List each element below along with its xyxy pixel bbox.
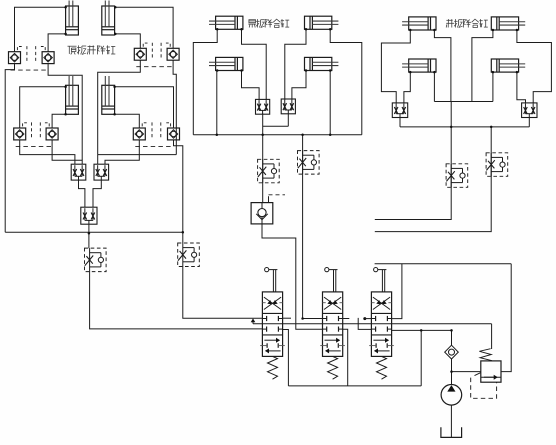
wire cyl4-bottom to lock2R-A — [115, 114, 140, 128]
pilot lines lock2R — [135, 122, 173, 146]
shuttle N2 — [522, 103, 537, 118]
wire cyl2-top to lock1R-B — [115, 7, 173, 48]
wire cyl2R-left to center join — [472, 30, 493, 102]
one-way throttle F1R — [446, 164, 468, 188]
cylinder: floor-fold 4 (row2-right) — [491, 59, 525, 72]
wire cyl3R-left to N1 — [404, 72, 410, 104]
wire cyl1-bottom to lock1L-B — [48, 34, 66, 52]
wire V1 right-bottom to bottom bus — [283, 330, 289, 386]
cylinder: wing-fold 3 (row2-left) — [209, 57, 243, 70]
label: floor fold cylinders (di ban zhan he gang) — [446, 19, 488, 27]
directional valve V1 (roof) lever — [265, 268, 278, 292]
pilot check valve: lock2R-B — [168, 128, 180, 140]
wire lock2R-A to B-in-right — [105, 140, 139, 164]
wire cyl1R-left to border to N1 — [381, 30, 410, 104]
wire left group bottom bus — [5, 231, 183, 233]
one-way throttle F2M — [298, 151, 320, 175]
cylinder: roof-lift 2 (top-right) — [102, 1, 115, 36]
pump suction line — [450, 405, 452, 437]
wire V3 left bracket — [358, 318, 371, 330]
pilot check valve: lock2L-A — [14, 128, 26, 140]
wire cyl3-top to lock2L-A — [20, 87, 66, 128]
wire cyl4M-left to M2 — [292, 71, 306, 101]
wire bottom pressure bus — [288, 385, 421, 387]
wire cyl2-bottom to lock1R-A — [115, 34, 140, 48]
wire lock1L-B out down — [48, 64, 82, 161]
shuttle/flow-combiner C — [81, 207, 97, 224]
wire center join bar — [434, 101, 493, 103]
one-way throttle F2R — [486, 153, 508, 177]
wire cyl3M-left down to bus — [216, 71, 218, 135]
wire cyl4-top to lock2R-B — [115, 87, 174, 128]
shuttle N1 — [392, 103, 407, 118]
directional valve V1 (roof) return spring — [268, 356, 278, 379]
wire branch down to bottom bus — [420, 330, 422, 386]
check valve above pump — [445, 345, 459, 359]
pilot check valve: lock1L-A — [9, 52, 21, 64]
relief valve pilot dashed line — [471, 378, 497, 399]
shuttle M1 — [256, 99, 270, 114]
shuttle/flow-combiner B — [94, 164, 109, 180]
one-way throttle F2L — [178, 243, 200, 267]
wire cyl1M-right to M1 — [242, 29, 267, 100]
cylinder: wing-fold 2 (top-right) — [305, 16, 339, 29]
pilot check valve: lock2L-B — [46, 128, 58, 140]
cylinder: roof-lift 3 (row2-left) — [66, 76, 79, 114]
wire V3 left-top stub — [363, 317, 366, 320]
wire F1L out to valve V1 left-bottom port — [90, 271, 263, 329]
wire N2-out to lock bus — [528, 118, 530, 127]
wire lock1L-A out to left border — [5, 64, 14, 233]
wire cyl2R-right to border to N2 — [517, 30, 552, 104]
wire cyl3R-right down to join — [433, 72, 435, 101]
wire middle group bus — [193, 134, 361, 136]
hydraulic pump — [441, 385, 462, 406]
cylinder: wing-fold 4 (row2-right) — [305, 57, 339, 70]
wire V2 right-top stub — [343, 318, 350, 320]
wire C-out to throttle F1L — [88, 224, 90, 248]
shuttle/flow-combiner A — [71, 164, 86, 180]
directional valve V3 (floor) — [369, 292, 394, 357]
wire cyl2M-right to border-bus — [330, 29, 362, 135]
wire cyl3-bottom to lock2L-B — [52, 114, 66, 128]
wire cyl4R-left down to join — [492, 72, 494, 101]
directional valve V2 (wing) — [320, 292, 345, 357]
wire N1-out to lock bus — [399, 118, 401, 127]
cylinder: floor-fold 2 (top-right) — [491, 17, 525, 30]
label: roof lift cylinders (ding ban sheng jiang gang) — [68, 45, 116, 54]
wire lock2L-A to A-in-left — [20, 140, 75, 164]
wire join to throttle F1R down to P-line — [375, 102, 451, 220]
wire V2 right-bottom to bottom bus — [343, 329, 348, 386]
wire check valve out to V2 left-bottom port — [262, 224, 323, 329]
wire lock2L-B to A-in-right — [52, 140, 82, 164]
wire cyl1M-left to border-bus — [193, 29, 217, 135]
wire cyl4M-right down to bus — [329, 71, 331, 135]
wire V3 right-bottom to pump riser — [392, 329, 452, 331]
one-way throttle F1M — [258, 159, 280, 183]
cylinder: wing-fold 1 (top-left) — [209, 16, 243, 29]
wire A-out to C-in-left — [79, 180, 85, 207]
wire F2L out to valve V1 left-top port — [183, 267, 263, 319]
pilot check valve: lock1R-A — [134, 48, 146, 60]
pilot check valve: lock1L-B — [42, 52, 54, 64]
pilot lines lock2L — [16, 122, 52, 146]
wire cyl1-top to lock1L-A — [15, 7, 66, 51]
directional valve V1 (roof) — [260, 292, 285, 357]
pilot lines lock1R — [136, 43, 172, 67]
pump riser — [451, 330, 453, 345]
directional valve V2 (wing) lever — [325, 268, 338, 292]
cylinder: floor-fold 3 (row2-left) — [402, 59, 436, 72]
wire cyl3M-right to M1 — [242, 71, 260, 101]
wire row1-right drops to B-in-left — [98, 154, 177, 156]
cylinder: floor-fold 1 (top-left) — [402, 17, 436, 30]
directional valve V2 (wing) return spring — [328, 356, 338, 379]
shuttle M2 — [281, 99, 295, 114]
wire cyl4R-right to N2 — [517, 72, 526, 104]
pilot check valve: lock2R-A — [133, 128, 145, 140]
wire B-out to C-in-right — [93, 180, 101, 207]
relief valve — [475, 349, 502, 382]
wire bus to throttle F2M to V2 left-top port — [303, 135, 323, 319]
wire lock2R-B to throttle F2L — [174, 140, 183, 243]
wire cyl2M-left to M2 — [285, 29, 306, 100]
check valve (pilot operated) mid — [251, 195, 285, 224]
directional valve V3 (floor) lever — [374, 268, 387, 292]
directional valve V3 (floor) return spring — [377, 356, 387, 379]
cylinder: roof-lift 1 (top-left) — [66, 1, 79, 36]
pilot lines lock1L — [11, 46, 48, 70]
wire tank return line to V3 right-top — [375, 263, 512, 265]
pilot check valve: lock1R-B — [167, 48, 179, 60]
wire bus to throttle F2R down — [375, 127, 491, 232]
wire lock1R-A out down — [98, 60, 141, 154]
wire lock1R-B out down — [173, 60, 176, 154]
label: wing fold cylinders (yi ban zhan he gang) — [248, 19, 289, 27]
wire right group lock bus — [400, 126, 529, 128]
wire V1 right-top stub — [283, 317, 291, 319]
wire cyl1R-right to center join — [434, 30, 451, 102]
wire M1/M2 outputs join to throttle F1M and check valve — [262, 113, 264, 202]
wire pump tee to relief valve — [452, 371, 481, 373]
tank — [441, 427, 462, 437]
wire vent line from V1 left-top to relief spring — [253, 323, 492, 325]
cylinder: roof-lift 4 (row2-right) — [102, 76, 115, 114]
one-way throttle F1L — [85, 248, 107, 272]
